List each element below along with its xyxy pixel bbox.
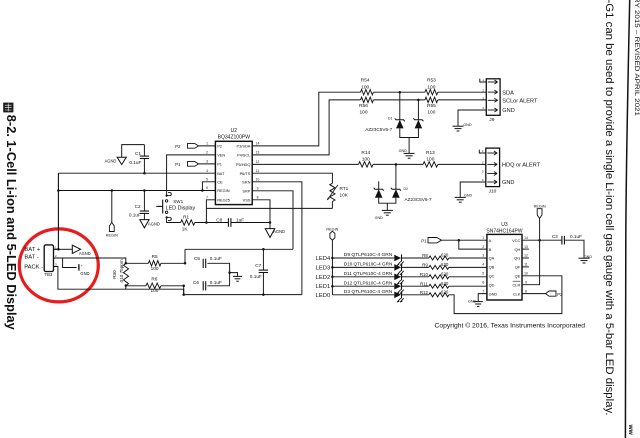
svg-text:0.1uF: 0.1uF [250, 274, 262, 279]
svg-text:ww: ww [627, 424, 634, 436]
svg-text:R14: R14 [361, 150, 370, 156]
svg-text:C7: C7 [255, 263, 261, 268]
wire LED row 4 [332, 294, 394, 296]
svg-text:B: B [489, 247, 492, 252]
svg-text:9: 9 [525, 280, 527, 284]
svg-text:7: 7 [206, 196, 208, 200]
resistor R9 [422, 262, 449, 269]
LED D11 [344, 271, 404, 284]
agnd for C1 [105, 157, 127, 164]
wire D1 bottoms [400, 128, 419, 137]
resistor R13 [423, 150, 438, 167]
net label LED1 [316, 284, 331, 290]
svg-text:7: 7 [482, 289, 484, 293]
resistor R55 [425, 97, 438, 115]
svg-text:SCLor ALERT: SCLor ALERT [502, 99, 538, 105]
svg-text:AZ23C5V6-7: AZ23C5V6-7 [365, 127, 392, 132]
svg-text:620: 620 [441, 262, 449, 267]
svg-text:D9 QTLP610C-4 GRN: D9 QTLP610C-4 GRN [344, 252, 393, 257]
svg-text:P2: P2 [175, 144, 181, 149]
svg-text:100: 100 [362, 157, 370, 163]
svg-text:U3: U3 [501, 222, 508, 228]
flag P2 at U2 [175, 144, 198, 149]
capacitor C8 [216, 217, 244, 226]
wire C6 right to mid gnd [207, 273, 229, 286]
svg-text:10: 10 [256, 178, 260, 182]
svg-text:8: 8 [257, 196, 259, 200]
svg-text:AGND: AGND [148, 222, 160, 227]
svg-text:100: 100 [427, 109, 435, 115]
svg-text:R54: R54 [361, 78, 370, 84]
svg-text:QF: QF [515, 265, 521, 270]
svg-text:620: 620 [441, 271, 449, 276]
svg-text:100: 100 [361, 84, 369, 90]
svg-text:3: 3 [482, 254, 484, 258]
wire RT1 bottom [331, 202, 333, 209]
wire J10 pin1 hook [479, 150, 486, 153]
svg-text:REGIN: REGIN [106, 234, 118, 238]
resistor R6 [146, 277, 161, 294]
svg-text:LED3: LED3 [316, 265, 331, 271]
svg-text:5: 5 [206, 178, 208, 182]
svg-text:GND: GND [489, 291, 498, 296]
LED D10 [344, 262, 404, 275]
resistor R10 [420, 271, 449, 278]
svg-text:620: 620 [441, 253, 449, 258]
wire J9 pin1 hook [480, 79, 487, 82]
svg-text:AGND: AGND [79, 251, 91, 256]
flag P1 at U3 [421, 238, 441, 244]
svg-text:LED Display: LED Display [166, 205, 196, 211]
resistor R5 [148, 254, 161, 271]
wire C2 stem [143, 191, 145, 212]
svg-text:13: 13 [524, 245, 528, 249]
IC U3 [486, 222, 522, 300]
svg-text:+: + [81, 264, 83, 268]
svg-text:11: 11 [256, 169, 260, 173]
wire R6 row [126, 285, 146, 287]
wire SRP riser [252, 191, 293, 250]
svg-text:QH: QH [514, 247, 520, 252]
wire C7 stem [262, 249, 264, 270]
svg-text:SRP: SRP [242, 189, 250, 194]
svg-text:9: 9 [257, 187, 259, 191]
flag P2 at U3 [546, 291, 564, 297]
wire C8 rail [195, 222, 229, 224]
wire D2 bottoms [379, 198, 396, 203]
svg-text:0.1uF: 0.1uF [129, 213, 141, 218]
svg-text:LED2: LED2 [316, 275, 331, 281]
svg-text:J10: J10 [489, 188, 497, 194]
svg-text:12: 12 [524, 254, 528, 258]
svg-text:R11: R11 [420, 281, 428, 286]
svg-text:RY 2015 – REVISED APRIL 2021: RY 2015 – REVISED APRIL 2021 [633, 0, 640, 116]
wire U3 B tie [459, 240, 487, 249]
net label LED2 [316, 275, 331, 281]
agnd for C2 [140, 220, 160, 228]
wire U3 REGIN riser [522, 218, 540, 284]
svg-text:R12: R12 [420, 290, 429, 295]
svg-text:2: 2 [482, 245, 484, 249]
svg-text:GND: GND [399, 149, 408, 153]
resistor R8 [422, 253, 449, 260]
resistor R14 [359, 150, 374, 167]
wire SCL riser [252, 100, 360, 155]
LED D12 [344, 280, 404, 293]
svg-text:14: 14 [256, 142, 260, 146]
svg-text:BAT -: BAT - [24, 255, 38, 261]
svg-text:J9: J9 [489, 117, 494, 123]
svg-text:R5: R5 [152, 254, 158, 259]
svg-text:0.1uF: 0.1uF [570, 234, 582, 239]
wire GND tap from BAT- [63, 258, 77, 268]
svg-text:HDQ or ALERT: HDQ or ALERT [502, 163, 541, 169]
wire LED anode bus [331, 240, 333, 295]
wire C5 right to mid gnd [207, 263, 229, 272]
wire REG25 down [206, 200, 215, 223]
svg-text:4: 4 [206, 169, 208, 173]
svg-text:14: 14 [524, 236, 528, 240]
svg-text:100: 100 [426, 157, 434, 163]
svg-text:PACK -: PACK - [24, 265, 43, 271]
svg-text:3: 3 [206, 160, 208, 164]
wire U3 A input [442, 239, 487, 241]
sense resistor R30 [112, 259, 129, 285]
wire U3 GND [478, 294, 487, 302]
svg-text:C1: C1 [135, 151, 141, 156]
connector J9 [482, 78, 538, 123]
svg-text:12: 12 [256, 160, 260, 164]
net label LED0 [316, 293, 331, 299]
svg-text:R1: R1 [183, 215, 189, 220]
resistor R56 [359, 97, 373, 115]
wire J9 gnd [458, 110, 486, 126]
svg-text:REGIN: REGIN [326, 227, 338, 231]
wire REGIN rail [58, 190, 215, 192]
svg-text:P6/TS: P6/TS [240, 171, 251, 176]
svg-text:GND: GND [464, 194, 473, 198]
svg-text:8: 8 [525, 289, 527, 293]
svg-text:P4/SCL: P4/SCL [237, 153, 251, 158]
capacitor C6 [193, 280, 222, 290]
svg-text:QG: QG [514, 256, 520, 261]
svg-text:LED4: LED4 [316, 256, 331, 262]
svg-text:R13: R13 [426, 150, 435, 156]
svg-text:GND: GND [502, 108, 514, 114]
svg-text:QD: QD [489, 282, 495, 287]
svg-text:R55: R55 [427, 103, 436, 109]
U2 pin labels [206, 142, 259, 203]
svg-text:P3/SDA: P3/SDA [237, 144, 251, 149]
svg-text:C2: C2 [135, 204, 141, 209]
svg-text:0.1uF: 0.1uF [210, 256, 222, 261]
junction dots [143, 172, 146, 175]
svg-text:QC: QC [489, 274, 495, 279]
svg-text:BQ34Z100PW: BQ34Z100PW [218, 135, 251, 141]
svg-text:AGND: AGND [273, 229, 285, 234]
wire R30 bottom stub [125, 286, 127, 290]
agnd flag TB3 [72, 245, 90, 256]
wire HDQ rail [252, 163, 358, 165]
svg-text:P1: P1 [421, 238, 427, 243]
U2 pin1 stub [198, 145, 215, 147]
svg-text:P2: P2 [557, 292, 563, 297]
battery connector TB3 [24, 245, 58, 277]
wire mid gnd stub [230, 273, 238, 277]
thermistor RT1 [327, 183, 349, 201]
wire C1 top to AGND [122, 145, 145, 158]
wire R5 row [126, 262, 149, 264]
svg-text:SDA: SDA [502, 90, 514, 96]
svg-text:GND: GND [584, 255, 593, 259]
svg-text:Copyright © 2016, Texas Instru: Copyright © 2016, Texas Instruments Inco… [435, 322, 586, 330]
svg-text:D1: D1 [388, 116, 392, 120]
wire top sense rail [185, 248, 293, 250]
ground for U3 [468, 300, 483, 307]
svg-text:R56: R56 [359, 103, 368, 109]
gnd symbol TB3 [79, 264, 90, 276]
wire D1 right stub [417, 100, 419, 120]
svg-text:P1: P1 [217, 162, 222, 167]
wire D1 left stub [399, 92, 401, 120]
svg-text:4: 4 [482, 263, 484, 267]
wire LED row 2 [332, 276, 394, 278]
svg-text:0.1uF: 0.1uF [129, 160, 141, 165]
wire D2 right stub [395, 164, 397, 189]
svg-text:SRN: SRN [242, 180, 250, 185]
svg-text:QB: QB [489, 265, 495, 270]
capacitor C5 [194, 256, 222, 268]
svg-text:620: 620 [441, 289, 449, 294]
svg-text:CLR: CLR [513, 282, 521, 287]
svg-text:VSS: VSS [243, 198, 251, 203]
svg-text:LED0: LED0 [316, 293, 331, 299]
header rule [625, 0, 629, 438]
LED D9 [344, 252, 404, 265]
svg-text:P5/HDQ: P5/HDQ [236, 162, 251, 167]
svg-text:U2: U2 [231, 128, 238, 134]
svg-text:1uF: 1uF [236, 217, 244, 222]
svg-text:D10 QTLP610C-4 GRN: D10 QTLP610C-4 GRN [344, 262, 393, 267]
regin flag LED bus [326, 227, 338, 240]
regin flag U3 [534, 205, 546, 219]
svg-text:1: 1 [206, 142, 208, 146]
svg-text:BAT: BAT [217, 171, 225, 176]
svg-text:R53: R53 [427, 78, 436, 84]
switch SW1 [156, 193, 195, 221]
net label LED3 [316, 265, 331, 271]
resistor R53 [425, 78, 438, 95]
wire VSS down [252, 200, 270, 223]
regin flag left [106, 222, 118, 237]
wire RT1 branch [252, 173, 332, 183]
svg-text:BAT +: BAT + [24, 247, 40, 253]
svg-text:QE: QE [515, 274, 521, 279]
svg-text:D3 QTLP610C-4 GRN: D3 QTLP610C-4 GRN [344, 289, 393, 294]
wire BAT rail [58, 172, 215, 174]
svg-text:1K: 1K [182, 227, 189, 232]
U2 pin3 stub [198, 163, 215, 165]
svg-text:R9: R9 [422, 263, 428, 268]
wire REG25 cross rail [206, 207, 332, 209]
svg-text:P1: P1 [175, 162, 181, 167]
svg-text:QA: QA [489, 256, 495, 261]
svg-text:C5: C5 [194, 256, 200, 261]
svg-text:AZ23C5V6-7: AZ23C5V6-7 [405, 197, 432, 202]
wire SRN riser [252, 182, 302, 295]
svg-text:GND: GND [463, 123, 472, 127]
wire CE jog [202, 182, 215, 191]
svg-text:0.1uF: 0.1uF [210, 280, 222, 285]
svg-text:-G1 can be used to provide a s: -G1 can be used to provide a single Li-i… [603, 0, 615, 416]
ground for D2 [375, 210, 393, 220]
svg-text:R8: R8 [422, 253, 428, 258]
svg-text:100: 100 [359, 109, 367, 115]
svg-text:6: 6 [206, 186, 208, 190]
svg-text:A: A [489, 238, 492, 243]
ground for D1 [399, 149, 415, 158]
net label LED4 [316, 256, 331, 262]
svg-text:C8: C8 [216, 217, 222, 222]
wire TB3 pin2 to R30 top [54, 258, 126, 263]
zener pair D1 [365, 116, 423, 132]
wire C1 stem [143, 145, 145, 157]
wire SDA riser [252, 92, 360, 146]
flag P1 at U2 [175, 162, 198, 167]
svg-text:R6: R6 [151, 277, 157, 282]
svg-text:6: 6 [482, 280, 484, 284]
svg-text:LED1: LED1 [316, 284, 331, 290]
svg-text:RT1: RT1 [340, 186, 349, 191]
svg-text:VCC: VCC [512, 238, 520, 243]
connector J10 [482, 148, 541, 194]
svg-text:AGND: AGND [105, 158, 117, 163]
ground for J10 [455, 194, 473, 203]
svg-text:D11 QTLP610C-4 GRN: D11 QTLP610C-4 GRN [344, 271, 393, 276]
svg-text:11: 11 [524, 263, 528, 267]
U3 pin labels [482, 236, 528, 296]
svg-text:100: 100 [151, 266, 159, 271]
svg-text:.010 75ppm: .010 75ppm [119, 259, 124, 283]
capacitor C3 [552, 234, 582, 245]
wire D2 left stub [378, 181, 380, 189]
svg-text:10: 10 [524, 272, 528, 276]
svg-text:5: 5 [482, 272, 484, 276]
wire REGIN flag stem [111, 191, 113, 223]
red highlight ellipse [19, 229, 98, 302]
svg-text:SW1: SW1 [173, 199, 183, 204]
figure caption block glyph [3, 103, 13, 113]
capacitor C1 [129, 151, 149, 165]
wire U3 VCC [522, 239, 562, 241]
resistor R54 [361, 78, 374, 95]
svg-text:REGIN: REGIN [217, 188, 230, 193]
svg-text:SN74HC164PW: SN74HC164PW [486, 229, 522, 235]
svg-text:R10: R10 [420, 272, 429, 277]
svg-text:VEN: VEN [217, 153, 225, 158]
capacitor C7 [250, 263, 268, 279]
svg-text:100: 100 [150, 288, 158, 293]
svg-text:C3: C3 [552, 234, 558, 239]
wire SW1 to R1 [167, 217, 181, 222]
wire LED row 0 [332, 257, 394, 259]
wire LED row 3 [332, 285, 394, 287]
svg-text:1: 1 [482, 236, 484, 240]
wire J10 gnd [460, 182, 486, 197]
wire TB3 pin1 to AGND flag [58, 248, 72, 250]
wire PACK- bottom rail [54, 267, 302, 295]
svg-text:GND: GND [502, 180, 514, 186]
LED D3 [344, 289, 404, 302]
capacitor C2 [129, 204, 149, 218]
svg-text:100: 100 [427, 84, 435, 90]
svg-text:R30: R30 [112, 270, 117, 279]
svg-text:13: 13 [256, 151, 260, 155]
resistor R11 [420, 281, 449, 288]
svg-text:TB3: TB3 [44, 272, 53, 277]
svg-text:8-2. 1-Cell Li-ion and 5-LED D: 8-2. 1-Cell Li-ion and 5-LED Display [4, 115, 19, 331]
wire C5 node up [184, 249, 186, 263]
IC U2 [215, 128, 252, 205]
zener pair D2 [374, 187, 432, 202]
wire AGND stub U2 [269, 223, 271, 229]
svg-text:D12 QTLP610C-4 GRN: D12 QTLP610C-4 GRN [344, 280, 393, 285]
svg-text:P2: P2 [217, 144, 222, 149]
svg-text:CE: CE [217, 180, 223, 185]
svg-text:CLK: CLK [513, 291, 521, 296]
svg-text:620: 620 [441, 281, 449, 286]
wire left bus vertical [57, 173, 59, 249]
ground for J9 [453, 123, 472, 131]
resistor R12 [420, 289, 449, 296]
wire TB3 pin1 riser [54, 173, 59, 249]
resistor R1 [181, 215, 195, 232]
svg-text:C6: C6 [193, 280, 199, 285]
svg-text:GND: GND [468, 300, 477, 304]
svg-text:GND: GND [375, 216, 384, 220]
wire LED row 1 [332, 266, 394, 268]
svg-text:10K: 10K [340, 193, 349, 198]
svg-text:REG25: REG25 [217, 198, 230, 203]
wire VEN to SW1 [167, 155, 216, 196]
U3 nc stubs [522, 249, 529, 267]
svg-text:D2: D2 [404, 187, 408, 191]
svg-text:REGIN: REGIN [534, 205, 546, 209]
wire C6 node down [183, 286, 185, 295]
ground for C3 [579, 255, 593, 263]
svg-text:GND: GND [80, 271, 89, 276]
svg-text:2: 2 [206, 151, 208, 155]
wire U3 CLK [522, 293, 546, 295]
ground mid C5C6 [233, 276, 242, 281]
agnd for U2 VSS [265, 229, 285, 238]
